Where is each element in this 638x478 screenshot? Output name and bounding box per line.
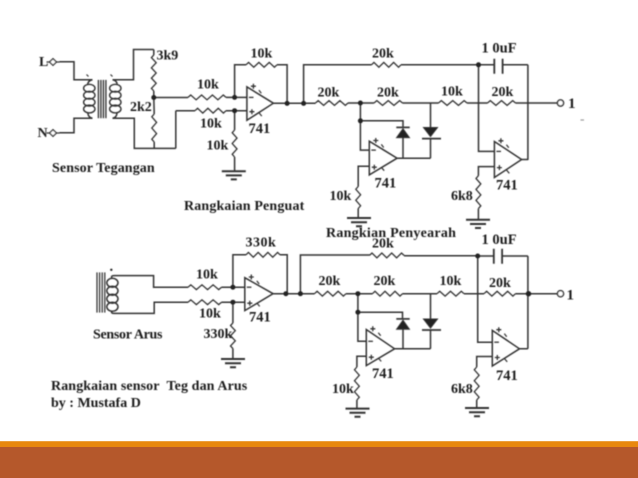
svg-text:741: 741 <box>375 176 397 192</box>
svg-text:10k: 10k <box>441 85 463 100</box>
svg-text:10k: 10k <box>440 274 462 289</box>
svg-text:N: N <box>38 126 48 141</box>
svg-text:1 0uF: 1 0uF <box>482 232 517 248</box>
svg-text:Sensor Tegangan: Sensor Tegangan <box>52 161 155 176</box>
svg-text:by : Mustafa D: by : Mustafa D <box>51 396 141 411</box>
svg-text:1 0uF: 1 0uF <box>482 41 517 57</box>
svg-text:10k: 10k <box>200 117 222 132</box>
svg-text:10k: 10k <box>199 307 221 322</box>
svg-text:3k9: 3k9 <box>157 49 179 64</box>
svg-text:330k: 330k <box>246 236 277 251</box>
svg-text:20k: 20k <box>492 85 514 100</box>
svg-text:741: 741 <box>496 178 518 194</box>
svg-text:Rangkaian sensor Teg dan Arus: Rangkaian sensor Teg dan Arus <box>51 379 248 394</box>
svg-text:10k: 10k <box>251 47 273 62</box>
svg-text:1: 1 <box>567 288 575 304</box>
svg-text:20k: 20k <box>318 86 340 101</box>
svg-text:10k: 10k <box>197 78 219 93</box>
svg-text:10k: 10k <box>332 382 354 397</box>
svg-text:20k: 20k <box>374 274 396 289</box>
svg-text:6k8: 6k8 <box>451 382 473 397</box>
svg-text:Sensor Arus: Sensor Arus <box>93 328 163 343</box>
svg-text:741: 741 <box>249 310 271 326</box>
svg-text:Rangkaian Penguat: Rangkaian Penguat <box>184 199 305 214</box>
svg-text:330k: 330k <box>204 327 233 342</box>
svg-text:L: L <box>39 55 48 70</box>
svg-text:741: 741 <box>496 368 518 384</box>
svg-text:741: 741 <box>249 121 271 137</box>
svg-text:20k: 20k <box>372 47 394 62</box>
svg-text:20k: 20k <box>372 237 394 252</box>
svg-text:20k: 20k <box>377 86 399 101</box>
svg-text:20k: 20k <box>489 276 511 291</box>
svg-text:20k: 20k <box>319 274 341 289</box>
svg-text:10k: 10k <box>330 189 352 204</box>
svg-text:10k: 10k <box>207 139 229 154</box>
svg-text:6k8: 6k8 <box>451 189 473 204</box>
svg-text:741: 741 <box>372 366 394 382</box>
svg-text:1: 1 <box>568 96 576 112</box>
svg-text:2k2: 2k2 <box>130 100 152 115</box>
svg-text:10k: 10k <box>196 268 218 283</box>
